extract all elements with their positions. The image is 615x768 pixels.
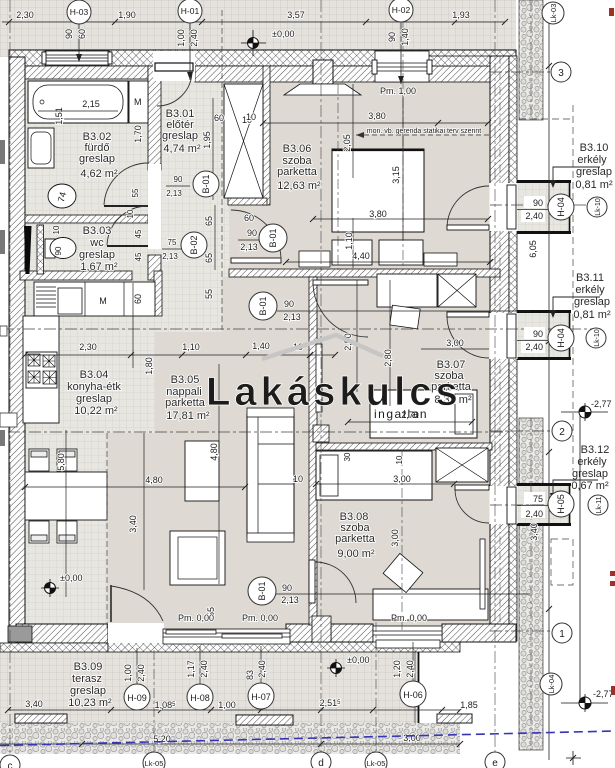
svg-text:H-09: H-09: [127, 693, 147, 703]
svg-text:Lk-10: Lk-10: [594, 329, 601, 347]
right outer wall inner layer: [490, 56, 509, 641]
svg-text:3,80: 3,80: [368, 111, 386, 121]
room fill kitchen B3.04: [25, 280, 161, 433]
svg-text:3,80: 3,80: [369, 209, 387, 219]
svg-text:90: 90: [54, 246, 63, 255]
svg-text:1,93: 1,93: [452, 10, 470, 20]
svg-text:parketta: parketta: [165, 397, 206, 409]
svg-text:1,67 m²: 1,67 m²: [80, 261, 118, 273]
svg-text:2,40: 2,40: [189, 29, 199, 47]
svg-text:1,95: 1,95: [202, 131, 212, 149]
terrace band bottom: [0, 651, 419, 723]
wc door B-02 + arc: [107, 206, 161, 249]
svg-text:konyha-étk: konyha-étk: [67, 381, 121, 393]
circle H-05: [548, 491, 574, 517]
svg-text:45: 45: [134, 229, 143, 238]
svg-text:erkély: erkély: [577, 154, 607, 166]
circle H-08: [187, 684, 213, 710]
circle H-03: [67, 0, 91, 24]
circle H-06: [400, 681, 426, 707]
svg-text:greslap: greslap: [572, 468, 608, 480]
bottom wall under living window: [108, 641, 460, 652]
level marker terrace: [41, 579, 59, 597]
svg-text:e: e: [492, 758, 498, 768]
level marker top: [241, 30, 266, 56]
svg-text:3,57: 3,57: [287, 10, 305, 20]
right pebble column bottom: [519, 418, 543, 750]
svg-text:90: 90: [64, 29, 74, 39]
svg-text:greslap: greslap: [574, 296, 610, 308]
chair B3.08: [383, 553, 423, 592]
circle H-07: [248, 683, 274, 709]
svg-text:55: 55: [204, 289, 214, 299]
circle c: [0, 755, 20, 768]
svg-text:2,40: 2,40: [136, 664, 146, 682]
svg-text:3,00: 3,00: [390, 529, 400, 547]
svg-text:2,40: 2,40: [405, 660, 415, 678]
circle e: [485, 752, 505, 768]
svg-text:parketta: parketta: [335, 533, 376, 545]
top wall inner layer bath: [25, 66, 148, 79]
svg-text:greslap: greslap: [76, 393, 112, 405]
svg-text:4,40: 4,40: [352, 251, 370, 261]
window H-06 (B3.08): [373, 626, 442, 648]
svg-text:3: 3: [558, 68, 564, 79]
svg-text:90: 90: [387, 32, 397, 42]
svg-text:erkély: erkély: [577, 456, 607, 468]
bathtub: [28, 81, 128, 123]
svg-text:1,51: 1,51: [54, 107, 64, 125]
right edge red marks: [609, 8, 615, 695]
kitchen stove: [26, 352, 57, 388]
svg-text:4,74 m²: 4,74 m²: [163, 143, 201, 155]
svg-text:75: 75: [533, 494, 543, 504]
svg-text:4,62 m²: 4,62 m²: [80, 168, 118, 180]
window H-03: [42, 51, 112, 65]
svg-text:2,30: 2,30: [16, 10, 34, 20]
svg-text:B3.11: B3.11: [576, 272, 604, 284]
svg-text:c: c: [8, 761, 13, 768]
svg-text:B3.10: B3.10: [580, 142, 609, 154]
svg-text:2,13: 2,13: [281, 595, 299, 605]
svg-text:parketta: parketta: [277, 166, 318, 178]
wardrobe B3.08 X: [436, 448, 488, 482]
dining chairs top: [29, 449, 77, 471]
svg-text:Pm. 0,00: Pm. 0,00: [178, 613, 214, 623]
svg-text:1,10: 1,10: [182, 342, 200, 352]
svg-text:mon. vb. gerenda statikai terv: mon. vb. gerenda statikai terv szerint: [367, 128, 481, 135]
svg-text:B-01: B-01: [268, 228, 278, 247]
balcony door B3.06 (H-04): [447, 183, 518, 231]
svg-text:1,70: 1,70: [133, 125, 143, 143]
vent shaft black wedge: [24, 226, 32, 274]
svg-text:90: 90: [247, 228, 257, 238]
wall B3.07/B3.08: [316, 443, 492, 450]
svg-text:65: 65: [204, 253, 214, 263]
wall wc east below door: [148, 255, 161, 280]
svg-text:Lk-05: Lk-05: [145, 759, 164, 768]
tub dim line: [38, 110, 118, 112]
svg-text:±0,00: ±0,00: [60, 573, 82, 583]
svg-text:greslap: greslap: [79, 249, 115, 261]
svg-text:M: M: [99, 296, 107, 306]
wall eloter/B3.06: [263, 66, 270, 205]
svg-text:B3.12: B3.12: [581, 444, 610, 456]
left wall exterior boxes: [0, 326, 7, 336]
blue boundary dashed line: [0, 731, 615, 746]
svg-text:83: 83: [245, 670, 255, 680]
balcony door B3.08 (H-05): [455, 485, 518, 524]
svg-text:1,20: 1,20: [392, 660, 402, 678]
balcony door B3.07 (H-04): [447, 312, 518, 359]
svg-text:B3.04: B3.04: [80, 369, 109, 381]
svg-text:wc: wc: [89, 237, 104, 249]
watermark roof: [262, 335, 383, 359]
room fill B3.08: [313, 447, 492, 627]
circle Lk-10 top: [587, 197, 607, 217]
svg-text:terasz: terasz: [72, 673, 102, 685]
circle Lk-05 left: [143, 752, 165, 768]
wall piece kitchen east: [154, 271, 162, 316]
svg-text:2: 2: [559, 427, 565, 438]
svg-text:3,00: 3,00: [446, 338, 464, 348]
wall pier bottom corridor: [312, 616, 331, 642]
circle B-01 bath: [193, 171, 219, 197]
svg-text:45: 45: [134, 252, 143, 261]
dining table: [25, 472, 107, 520]
circle d: [311, 752, 331, 768]
door B3.08 B-01: [309, 560, 356, 603]
bath door B-01 + arc: [104, 163, 161, 208]
circle B-01 corridor: [249, 292, 277, 320]
svg-text:2,13: 2,13: [240, 242, 258, 252]
circle Lk-11: [588, 495, 608, 515]
svg-text:17,81 m²: 17,81 m²: [166, 410, 210, 422]
svg-text:-2,77: -2,77: [591, 399, 612, 409]
room fill bathroom B3.02: [25, 66, 161, 216]
svg-text:erkély: erkély: [575, 284, 605, 296]
svg-text:2,30: 2,30: [79, 342, 97, 352]
top wall inner layer B3.06: [195, 66, 490, 82]
svg-text:90: 90: [284, 299, 294, 309]
svg-text:greslap: greslap: [70, 685, 106, 697]
svg-text:H-02: H-02: [392, 5, 411, 15]
circle H-09: [124, 684, 150, 710]
svg-text:H-08: H-08: [190, 693, 210, 703]
svg-text:1,00: 1,00: [218, 700, 236, 710]
svg-text:10: 10: [293, 474, 303, 484]
bed B3.08: [316, 451, 432, 500]
circle Lk-05 right: [365, 752, 387, 768]
svg-text:greslap: greslap: [79, 153, 115, 165]
wardrobe trapezoid B3.06: [284, 84, 361, 95]
wall wc/kitchen: [20, 271, 132, 280]
kitchen counter top row: [34, 282, 155, 316]
living window band: [163, 629, 290, 644]
svg-text:3,00: 3,00: [403, 733, 421, 743]
svg-text:H-07: H-07: [251, 692, 271, 702]
svg-text:2,80: 2,80: [383, 349, 393, 367]
circle 1: [552, 623, 572, 643]
svg-text:Pm. 0,00: Pm. 0,00: [391, 613, 427, 623]
closet eloter X: [224, 84, 263, 198]
svg-text:60: 60: [214, 113, 224, 123]
svg-text:B-01: B-01: [201, 174, 211, 193]
svg-text:90: 90: [533, 329, 543, 339]
radiator strip B3.07: [316, 344, 322, 412]
svg-text:30: 30: [343, 452, 352, 461]
svg-text:-2,77: -2,77: [593, 689, 614, 699]
svg-text:B3.03: B3.03: [83, 225, 112, 237]
svg-text:0,81 m²: 0,81 m²: [573, 309, 611, 321]
svg-text:60: 60: [133, 294, 143, 304]
armchair living: [170, 531, 225, 585]
left outer wall: [9, 57, 25, 651]
svg-text:4,80: 4,80: [209, 443, 219, 461]
window leader arrows: [76, 54, 404, 84]
svg-text:12,63 m²: 12,63 m²: [277, 180, 321, 192]
svg-text:90: 90: [282, 583, 292, 593]
svg-text:1,40: 1,40: [252, 341, 270, 351]
right outer wall insulation: [509, 56, 517, 641]
balcony slab B3.12: [516, 483, 571, 526]
svg-text:H-03: H-03: [70, 7, 89, 17]
svg-text:2,40: 2,40: [525, 342, 543, 352]
bottom-right small cross: [566, 751, 581, 765]
svg-text:1,40: 1,40: [400, 28, 410, 46]
svg-text:10,22 m²: 10,22 m²: [74, 405, 118, 417]
svg-text:d: d: [318, 758, 324, 768]
sofa living: [247, 408, 294, 542]
svg-text:H-06: H-06: [403, 690, 423, 700]
svg-text:±0,00: ±0,00: [347, 655, 369, 665]
desk B3.07: [377, 274, 437, 307]
svg-text:1,10: 1,10: [344, 232, 354, 250]
wall B3.06/B3.07: [229, 269, 500, 277]
svg-text:Lk-05: Lk-05: [367, 759, 386, 768]
svg-text:H-04: H-04: [556, 328, 566, 348]
right wall axis dashdot: [499, 56, 501, 641]
pillar top: [313, 60, 333, 84]
circle H-02: [389, 0, 413, 22]
svg-text:2,15: 2,15: [82, 99, 100, 109]
dining chairs bottom: [29, 521, 77, 543]
side rect B3.06: [299, 251, 330, 267]
wall living/rooms vertical: [309, 277, 317, 625]
right pebble column top: [519, 0, 543, 120]
svg-text:10: 10: [52, 225, 61, 234]
svg-text:2,13: 2,13: [283, 312, 301, 322]
desk B3.08: [373, 589, 488, 620]
svg-text:2,40: 2,40: [525, 211, 543, 221]
mon vb gerenda leader: [356, 132, 492, 138]
svg-text:B3.06: B3.06: [283, 143, 312, 155]
svg-text:3,40: 3,40: [529, 523, 539, 541]
svg-text:2,05: 2,05: [342, 134, 352, 152]
svg-text:10: 10: [246, 112, 256, 122]
mirror strip B3.08: [480, 539, 485, 609]
svg-text:2,40: 2,40: [199, 660, 209, 678]
svg-text:2,40: 2,40: [525, 509, 543, 519]
svg-text:Lk-04: Lk-04: [547, 675, 556, 694]
entrance door H-01: [153, 51, 195, 106]
svg-text:1: 1: [559, 629, 565, 640]
svg-text:ingatlan: ingatlan: [374, 407, 428, 421]
svg-text:60: 60: [244, 213, 254, 223]
svg-text:4,80: 4,80: [145, 475, 163, 485]
bottom wall right segment: [442, 624, 516, 642]
svg-text:75: 75: [168, 238, 177, 247]
room fill B3.07: [313, 273, 492, 447]
terrace step hatched rects: [15, 714, 67, 723]
svg-text:greslap: greslap: [162, 130, 198, 142]
circle Lk-04: [540, 673, 562, 695]
eloter closet dim line: [212, 98, 214, 200]
living terrace door opening: [108, 585, 164, 643]
svg-text:6,05: 6,05: [528, 240, 538, 258]
svg-text:90: 90: [533, 198, 543, 208]
svg-text:10,23 m²: 10,23 m²: [68, 697, 112, 709]
svg-text:2,13: 2,13: [166, 189, 182, 198]
circle B-01 bottom: [248, 577, 276, 605]
room fill living B3.05 + corridor: [107, 433, 311, 630]
wc toilet: [45, 238, 76, 259]
svg-text:3,40: 3,40: [25, 699, 43, 709]
circle Lk-03: [542, 2, 564, 24]
svg-text:Pm. 1,00: Pm. 1,00: [380, 86, 416, 96]
circle H-01: [178, 0, 202, 23]
svg-text:Lk-11: Lk-11: [596, 496, 603, 513]
level marker bottom: [327, 659, 345, 677]
svg-text:H-01: H-01: [181, 6, 200, 16]
top-right inner wall piece: [428, 56, 516, 66]
bottom wall pier middle: [286, 624, 331, 642]
coffee table living: [185, 441, 219, 501]
circle B-02 wc: [181, 232, 207, 258]
circle H-04 mid: [548, 325, 574, 351]
bed B3.06: [332, 149, 457, 266]
svg-text:65: 65: [204, 216, 214, 226]
svg-text:1,80: 1,80: [144, 357, 154, 375]
svg-text:10: 10: [126, 209, 135, 218]
svg-text:Lk-03: Lk-03: [549, 4, 558, 23]
svg-text:55: 55: [131, 188, 140, 197]
circle Lk-10 mid: [586, 328, 606, 348]
svg-text:1,00: 1,00: [176, 29, 186, 47]
svg-text:3,15: 3,15: [391, 166, 401, 184]
svg-text:60: 60: [77, 29, 87, 39]
svg-text:3,40: 3,40: [128, 515, 138, 533]
circle H-04 top: [548, 194, 574, 220]
svg-text:1,90: 1,90: [118, 10, 136, 20]
top main dim line: [2, 21, 505, 23]
svg-text:1,85: 1,85: [460, 700, 478, 710]
svg-text:3,00: 3,00: [393, 474, 411, 484]
vent shaft xhatch strip: [37, 225, 44, 274]
room fill eloter B3.01: [155, 66, 263, 216]
svg-text:2,40: 2,40: [257, 660, 267, 678]
balcony slab B3.10: [516, 180, 571, 234]
svg-text:10: 10: [395, 455, 404, 464]
room fill wc B3.03: [25, 216, 161, 280]
svg-text:H-04: H-04: [556, 197, 566, 217]
pebble band bottom: [0, 723, 460, 754]
wall pier corridor: [313, 425, 329, 442]
svg-text:9,00 m²: 9,00 m²: [337, 548, 375, 560]
svg-text:±0,00: ±0,00: [272, 29, 294, 39]
door B3.07 B-01: [313, 280, 368, 337]
door B3.06 B-01: [231, 210, 281, 263]
svg-text:2,13: 2,13: [162, 252, 178, 261]
circle 3: [551, 62, 571, 82]
bottom wall left segment: [16, 624, 108, 643]
svg-text:Pm. 0,00: Pm. 0,00: [242, 613, 278, 623]
svg-text:5,80: 5,80: [56, 453, 66, 471]
gray shaft block bottom-left: [8, 626, 32, 642]
left edge dark blobs: [0, 140, 5, 446]
svg-text:B3.05: B3.05: [171, 374, 200, 386]
bed B3.07: [370, 390, 477, 438]
wall bath/wc: [25, 215, 148, 223]
svg-text:M: M: [134, 97, 142, 107]
wardrobe B3.07 X: [438, 274, 476, 307]
svg-text:1,17: 1,17: [186, 660, 196, 678]
washbasin: [28, 128, 54, 168]
kitchen counter column: [23, 316, 59, 423]
svg-text:B-01: B-01: [258, 296, 268, 315]
upper neighbour terrace texture band: [0, 0, 516, 57]
balcony label leaders: [553, 167, 600, 495]
chair B3.07: [390, 305, 421, 329]
svg-text:H-05: H-05: [556, 494, 566, 514]
svg-text:greslap: greslap: [576, 166, 612, 178]
svg-text:1,00: 1,00: [123, 664, 133, 682]
washing machine bath: [48, 184, 76, 208]
balcony slab B3.11: [516, 310, 571, 360]
bottom wall segment between windows: [331, 624, 373, 642]
circle 2: [552, 421, 572, 441]
svg-text:0,81 m²: 0,81 m²: [575, 179, 613, 191]
room fill dining part: [25, 433, 107, 625]
wall bath/eloter: [148, 66, 161, 170]
top outer wall insulation: [9, 50, 516, 66]
svg-text:B-01: B-01: [257, 581, 267, 600]
svg-text:B3.09: B3.09: [74, 661, 103, 673]
svg-text:0,67 m²: 0,67 m²: [571, 480, 609, 492]
room fill B3.06: [266, 66, 492, 273]
wall stub below closet: [228, 198, 267, 205]
M column bath: [129, 81, 148, 123]
svg-text:B-02: B-02: [189, 235, 199, 254]
svg-text:Lk-10: Lk-10: [595, 198, 602, 216]
level marker -2.77 top: [561, 403, 608, 712]
circle B-01 eloter: [259, 224, 287, 252]
window H-02: [372, 51, 432, 82]
svg-text:90: 90: [174, 175, 183, 184]
